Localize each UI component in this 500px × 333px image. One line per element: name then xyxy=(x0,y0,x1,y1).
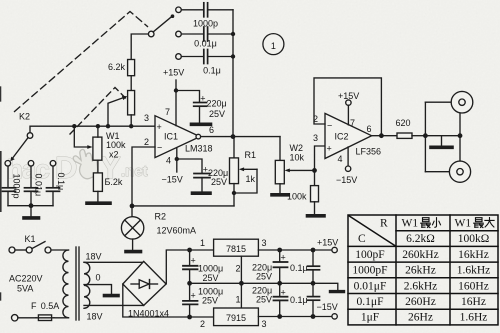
svg-text:1.6Hz: 1.6Hz xyxy=(460,312,488,324)
svg-text:4: 4 xyxy=(338,154,343,164)
svg-text:16kHz: 16kHz xyxy=(458,249,489,261)
junction output node xyxy=(231,134,236,139)
svg-text:6: 6 xyxy=(367,124,372,134)
regulator 7915 xyxy=(214,308,259,326)
junction W1a wiper / node A xyxy=(106,124,110,128)
table row 0.1uF xyxy=(357,296,486,308)
svg-text:1.6kHz: 1.6kHz xyxy=(457,265,491,277)
wire 100k to ground xyxy=(314,202,316,214)
resistor 6.2k (upper) xyxy=(128,60,135,76)
wire jacks center vertical xyxy=(459,113,461,161)
wire W1b to 6.2k lower xyxy=(97,160,99,173)
wire IC1 output xyxy=(200,136,280,138)
svg-text:260Hz: 260Hz xyxy=(405,296,436,308)
svg-text:5VA: 5VA xyxy=(17,284,33,294)
junction W2 wiper / IC2 pin3 xyxy=(312,168,317,173)
svg-text:1: 1 xyxy=(200,238,205,248)
wire to ground xyxy=(30,206,32,217)
capacitor 0.01u (ground bank) xyxy=(25,166,38,206)
wire R1 bottom xyxy=(233,184,235,206)
dashed gang line to W1 wiper xyxy=(70,88,128,135)
terminal -15V (IC2) xyxy=(345,166,350,171)
K2 contact 3 xyxy=(50,161,56,167)
ground (lamp) xyxy=(126,250,141,254)
R1 wiper xyxy=(236,167,257,193)
terminal -15V xyxy=(332,314,337,319)
svg-text:+: + xyxy=(191,256,196,266)
svg-text:+: + xyxy=(281,288,286,298)
wire pivot to 6.2k resistor xyxy=(131,34,148,60)
svg-text:1000pF: 1000pF xyxy=(352,265,387,277)
wire IC2 pin4 xyxy=(347,147,349,166)
svg-text:2: 2 xyxy=(144,137,149,147)
svg-text:+: + xyxy=(327,143,332,153)
svg-text:−15V: −15V xyxy=(336,175,357,185)
svg-text:3: 3 xyxy=(313,133,318,143)
selector switch S1b arm xyxy=(153,14,174,32)
svg-text:26kHz: 26kHz xyxy=(405,265,436,277)
svg-text:100k: 100k xyxy=(287,192,307,202)
wire ground rail xyxy=(190,283,338,289)
junction gnd rail / 220u xyxy=(277,281,282,286)
table row 1uF xyxy=(361,312,488,324)
junction +rail / 0.1u xyxy=(311,248,316,253)
svg-text:+: + xyxy=(281,253,286,263)
K2 contact 2 xyxy=(28,161,34,167)
capacitor 220u (+rail) xyxy=(274,250,288,283)
svg-text:3: 3 xyxy=(144,113,149,123)
junction -rail / C6 xyxy=(187,315,192,320)
wire output node to R1 xyxy=(233,137,234,158)
junction -rail / 0.1u xyxy=(311,314,316,319)
wire bridge plus to +rail xyxy=(166,250,213,284)
svg-text:25V: 25V xyxy=(256,295,272,305)
junction output left xyxy=(423,133,428,138)
capacitor 0.01u (feedback bank) xyxy=(181,27,233,41)
svg-text:0.1μ: 0.1μ xyxy=(290,263,308,273)
transformer T1 secondary xyxy=(84,262,90,308)
svg-text:F 0.5A: F 0.5A xyxy=(31,301,59,311)
table row 1000pF xyxy=(352,265,490,277)
svg-text:18V: 18V xyxy=(86,252,102,262)
svg-text:25V: 25V xyxy=(211,177,227,187)
svg-text:25V: 25V xyxy=(209,109,225,119)
junction ground rail / C5 xyxy=(187,281,192,286)
svg-text:C: C xyxy=(358,233,366,245)
wire to top jack xyxy=(425,101,451,103)
svg-text:0.01μ: 0.01μ xyxy=(194,39,217,49)
svg-text:6.2kΩ: 6.2kΩ xyxy=(406,233,435,245)
wire -15V output rail xyxy=(258,316,332,318)
ground (supply) xyxy=(331,290,344,293)
wire 620 to output node xyxy=(412,135,425,137)
wire K1 to transformer xyxy=(51,249,69,251)
svg-text:3: 3 xyxy=(262,238,267,248)
AC terminal bottom xyxy=(12,315,18,321)
svg-text:12V60mA: 12V60mA xyxy=(157,226,197,236)
wire bridge minus to -rail xyxy=(123,284,214,317)
wire feedback bus xyxy=(232,10,234,137)
switch K2 arm xyxy=(10,138,28,162)
wire node A to W1b top xyxy=(97,126,99,137)
frequency table frame xyxy=(348,215,498,325)
svg-text:R2: R2 xyxy=(155,212,167,222)
switch K2 pivot xyxy=(27,133,33,139)
potentiometer R1 body xyxy=(230,158,239,184)
junction jacks center xyxy=(458,133,463,138)
svg-text:IC1: IC1 xyxy=(164,132,178,142)
wire to 100k xyxy=(314,170,316,185)
svg-text:220μ: 220μ xyxy=(207,99,227,109)
wire +15V output rail xyxy=(258,249,332,251)
wire K2 pivot to node A xyxy=(30,126,155,133)
capacitor 220u (IC1 pin7) xyxy=(194,103,207,123)
svg-text:R: R xyxy=(380,218,388,230)
ground (pin7 cap) xyxy=(192,123,211,127)
junction +rail / C5 xyxy=(187,248,192,253)
svg-text:K1: K1 xyxy=(25,234,36,244)
capacitor 1000p (feedback bank) xyxy=(181,3,233,17)
svg-text:7: 7 xyxy=(165,107,170,117)
capacitor 1000u lower xyxy=(183,283,198,317)
junction +rail / 220u xyxy=(277,248,282,253)
svg-text:IC2: IC2 xyxy=(335,132,349,142)
capacitor 220u (IC1 pin4) xyxy=(194,174,210,192)
wire IC1 pin7 to +15V xyxy=(175,80,177,126)
wire AC top xyxy=(15,249,26,251)
svg-text:+: + xyxy=(157,122,162,132)
svg-text:+: + xyxy=(191,291,196,301)
capacitor 0.1u (-rail) xyxy=(308,283,320,316)
svg-text:.net: .net xyxy=(121,163,148,180)
resistor 620 xyxy=(397,133,412,138)
svg-text:16Hz: 16Hz xyxy=(461,296,486,308)
wire middle to jacks center xyxy=(425,135,460,137)
transformer T1 primary xyxy=(63,250,69,318)
transformer T1 core xyxy=(76,247,79,320)
potentiometer W2 body xyxy=(275,160,284,183)
bridge diode symbol xyxy=(131,280,158,289)
svg-text:0.1μ: 0.1μ xyxy=(203,66,221,76)
wire IC2 output xyxy=(372,135,397,137)
output jack J1 xyxy=(451,91,473,113)
svg-text:R1: R1 xyxy=(245,150,257,160)
svg-text:6.2k: 6.2k xyxy=(108,62,126,72)
svg-text:620: 620 xyxy=(396,118,411,128)
junction gnd rail / 0.1u xyxy=(311,281,316,286)
svg-text:0: 0 xyxy=(96,273,101,283)
wire secondary bottom tap to bridge xyxy=(84,304,144,306)
wire feedback rail to lamp xyxy=(132,205,234,207)
capacitor 0.1u (ground bank) xyxy=(47,166,60,206)
wire W2 bottom to ground xyxy=(279,184,281,193)
resistor 100k xyxy=(311,186,319,202)
svg-text:25V: 25V xyxy=(202,296,218,306)
svg-text:0.01μ: 0.01μ xyxy=(34,174,44,197)
junction bus/cap2 xyxy=(231,32,235,36)
ground (centre tap) xyxy=(105,294,119,298)
svg-text:25V: 25V xyxy=(256,272,272,282)
junction ground rail / regulators xyxy=(239,281,244,286)
table header W1 max xyxy=(455,218,495,230)
svg-text:3: 3 xyxy=(262,319,267,329)
svg-text:18V: 18V xyxy=(87,312,103,322)
capacitor 0.1u (+rail) xyxy=(308,250,320,283)
output jack J2 xyxy=(449,161,470,182)
svg-text:6: 6 xyxy=(209,125,214,135)
svg-text:LM318: LM318 xyxy=(185,144,213,154)
ground (W2) xyxy=(272,193,288,197)
svg-text:−15V: −15V xyxy=(317,302,338,312)
svg-text:−: − xyxy=(157,143,162,153)
terminal +15V xyxy=(332,247,337,252)
switch K1 contact left xyxy=(26,247,32,253)
wire pin7 branch to bypass cap xyxy=(176,91,200,102)
junction bus/cap3 xyxy=(231,54,235,58)
junction W1b wiper / node A xyxy=(72,124,76,128)
svg-text:1μF: 1μF xyxy=(361,312,379,324)
capacitor 1000u upper xyxy=(183,250,198,283)
circled figure number 1 xyxy=(263,34,284,55)
wire 6.2k to W1a xyxy=(130,76,132,91)
wire jack bus left xyxy=(424,102,426,172)
selector contact 2 xyxy=(176,31,182,37)
junction W1b top / node A xyxy=(96,124,100,128)
svg-text:1: 1 xyxy=(271,41,276,51)
svg-text:0.1μ: 0.1μ xyxy=(290,295,308,305)
svg-text:2: 2 xyxy=(236,264,241,274)
svg-text:0.01μF: 0.01μF xyxy=(354,280,387,292)
svg-text:7915: 7915 xyxy=(226,313,246,323)
K2 contact 1 xyxy=(5,161,11,167)
wire secondary centre tap xyxy=(84,285,112,294)
IC1 output bubble xyxy=(196,134,201,139)
junction feedback/output xyxy=(379,133,384,138)
op-amp IC2 body xyxy=(325,113,372,158)
ground (cap bank) xyxy=(24,216,39,220)
svg-text:260kHz: 260kHz xyxy=(402,249,438,261)
watermark hacDIY.net xyxy=(7,148,148,185)
terminal +15V (IC2) xyxy=(346,100,351,105)
svg-text:+15V: +15V xyxy=(163,68,184,78)
svg-text:0.1μF: 0.1μF xyxy=(357,296,384,308)
bridge rectifier 1N4001x4 xyxy=(123,261,166,305)
svg-text:LF356: LF356 xyxy=(356,147,382,157)
svg-text:W1: W1 xyxy=(455,218,472,230)
fuse F xyxy=(18,315,69,321)
svg-text:100kΩ: 100kΩ xyxy=(458,233,490,245)
selector switch S1b pivot xyxy=(148,31,154,37)
wire 7815 pin2 / 7915 pin1 xyxy=(240,256,242,308)
svg-text:7: 7 xyxy=(350,118,355,128)
svg-text:1: 1 xyxy=(236,295,241,305)
capacitor 220u (-rail) xyxy=(274,283,288,316)
resistor 6.2k (lower) xyxy=(93,173,102,192)
junction pin7 branch xyxy=(174,88,178,92)
svg-text:K2: K2 xyxy=(19,112,30,122)
wire IC1 pin2 down xyxy=(132,147,155,206)
svg-text:1k: 1k xyxy=(246,174,256,184)
wire to bottom jack xyxy=(425,171,449,173)
ground (output) xyxy=(431,136,452,148)
lamp R2 xyxy=(121,206,143,250)
switch K1 arm xyxy=(32,242,45,249)
svg-text:25V: 25V xyxy=(203,273,219,283)
ground (pin4 cap) xyxy=(193,191,211,195)
wire pin4 branch to bypass cap xyxy=(177,159,202,173)
selector contact 3 xyxy=(176,54,182,60)
wire IC1 pin4 to -15V xyxy=(176,148,178,172)
potentiometer W1b wiper xyxy=(74,126,92,149)
wire secondary top tap to bridge xyxy=(84,261,144,263)
svg-text:10k: 10k xyxy=(290,153,305,163)
svg-text:−15V: −15V xyxy=(162,175,183,185)
dashed gang line to top selector xyxy=(15,12,148,112)
table row 0.01uF xyxy=(354,280,489,292)
svg-text:+15V: +15V xyxy=(317,238,338,248)
potentiometer W1a body xyxy=(128,91,135,115)
junction cap bank / ground xyxy=(29,203,34,208)
svg-text:W2: W2 xyxy=(290,143,304,153)
wire to IC2 pin3 xyxy=(315,146,326,170)
edge scan artifacts xyxy=(0,87,2,300)
svg-text:−: − xyxy=(327,120,332,130)
capacitor 1000p (ground bank) xyxy=(3,166,16,206)
AC terminal top xyxy=(9,247,15,253)
svg-text:7815: 7815 xyxy=(226,244,246,254)
svg-text:26Hz: 26Hz xyxy=(408,312,433,324)
svg-text:2.6kHz: 2.6kHz xyxy=(404,280,438,292)
W2 wiper xyxy=(285,169,315,173)
table header W1 min xyxy=(402,218,441,230)
svg-text:100pF: 100pF xyxy=(355,249,384,261)
svg-text:1000p: 1000p xyxy=(193,19,218,29)
junction R1 bottom xyxy=(232,191,236,195)
capacitor 0.1u (feedback bank) xyxy=(181,50,233,64)
op-amp IC1 body xyxy=(155,116,200,158)
svg-text:W1: W1 xyxy=(402,218,419,230)
potentiometer W1a wiper xyxy=(108,96,127,126)
junction W1a bottom / node A xyxy=(129,124,133,128)
wire 6.2k lower to ground xyxy=(97,191,99,201)
ground (100k) xyxy=(308,214,325,218)
wire W1a bottom to node A xyxy=(130,115,132,126)
ground (6.2k lower) xyxy=(87,201,110,205)
svg-text:0.1μ: 0.1μ xyxy=(56,173,66,191)
wire IC2 pin7 xyxy=(347,105,349,125)
junction pin4 branch xyxy=(175,157,179,161)
junction lamp node xyxy=(130,204,135,209)
selector contact 1 xyxy=(176,7,182,13)
wire cap bank common xyxy=(8,205,53,207)
table row 100pF xyxy=(355,249,489,261)
svg-text:AC220V: AC220V xyxy=(9,274,43,284)
svg-text:x2: x2 xyxy=(109,150,119,160)
svg-text:100k: 100k xyxy=(106,140,126,150)
potentiometer W1b body xyxy=(93,137,102,160)
regulator 7815 xyxy=(214,239,259,256)
switch K1 contact right xyxy=(45,247,51,253)
svg-text:2: 2 xyxy=(200,319,205,329)
svg-text:+: + xyxy=(200,94,205,104)
wire output to W2 xyxy=(279,137,281,161)
svg-text:4: 4 xyxy=(166,156,171,166)
svg-text:1000p: 1000p xyxy=(12,174,22,199)
svg-text:160Hz: 160Hz xyxy=(458,280,489,292)
junction -rail / 220u xyxy=(277,314,282,319)
svg-text:Б.2k: Б.2k xyxy=(105,177,123,187)
wire IC2 feedback loop xyxy=(314,78,381,136)
